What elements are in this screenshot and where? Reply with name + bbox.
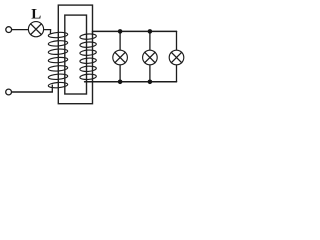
wire secondary top lead connector	[92, 31, 94, 35]
terminal T2 (bottom-left input)	[6, 89, 12, 95]
primary coil turn 6	[48, 73, 68, 80]
junction dot top bus lamp2	[148, 29, 153, 34]
transformer core inner rectangle	[65, 15, 87, 94]
wire primary coil entry connector	[49, 30, 51, 34]
secondary coil turn 2	[80, 41, 97, 47]
primary coil turn 5	[48, 65, 68, 72]
wire lamp L to primary coil	[44, 29, 50, 31]
secondary coil turn 4	[80, 58, 97, 64]
secondary coil turn 1	[80, 33, 97, 39]
wire bottom bus	[85, 81, 177, 83]
wire bottom return to T2	[12, 91, 53, 93]
wire lamp2 top stub	[149, 31, 151, 50]
junction dot bottom bus lamp2	[148, 80, 153, 85]
wire primary coil exit connector	[51, 85, 53, 92]
primary coil turn 3	[48, 48, 68, 55]
lamp L3	[169, 50, 184, 65]
wire top bus	[93, 30, 177, 32]
wire lamp1 bottom stub	[119, 65, 121, 82]
secondary coil turn 5	[80, 66, 97, 72]
secondary coil turn 6	[80, 74, 97, 80]
transformer core outer rectangle	[58, 5, 92, 104]
junction dot bottom bus lamp1	[118, 80, 123, 85]
lamp L2	[143, 50, 158, 65]
primary coil turn 2	[48, 40, 68, 47]
lamp L1	[113, 50, 128, 65]
wire lamp3 bottom stub	[176, 65, 178, 82]
wire lamp2 bottom stub	[149, 65, 151, 82]
terminal T1 (top-left input)	[6, 27, 12, 33]
wire lamp3 top stub	[176, 31, 178, 50]
junction dot top bus lamp1	[118, 29, 123, 34]
lamp L	[28, 22, 43, 37]
svg-text:L: L	[31, 6, 41, 22]
wire T1 to lamp L	[12, 29, 28, 31]
wire lamp1 top stub	[119, 31, 121, 50]
secondary coil turn 3	[80, 50, 97, 56]
primary coil turn 4	[48, 57, 68, 64]
primary coil turn 1	[48, 32, 68, 39]
primary coil turn 7	[48, 82, 68, 89]
